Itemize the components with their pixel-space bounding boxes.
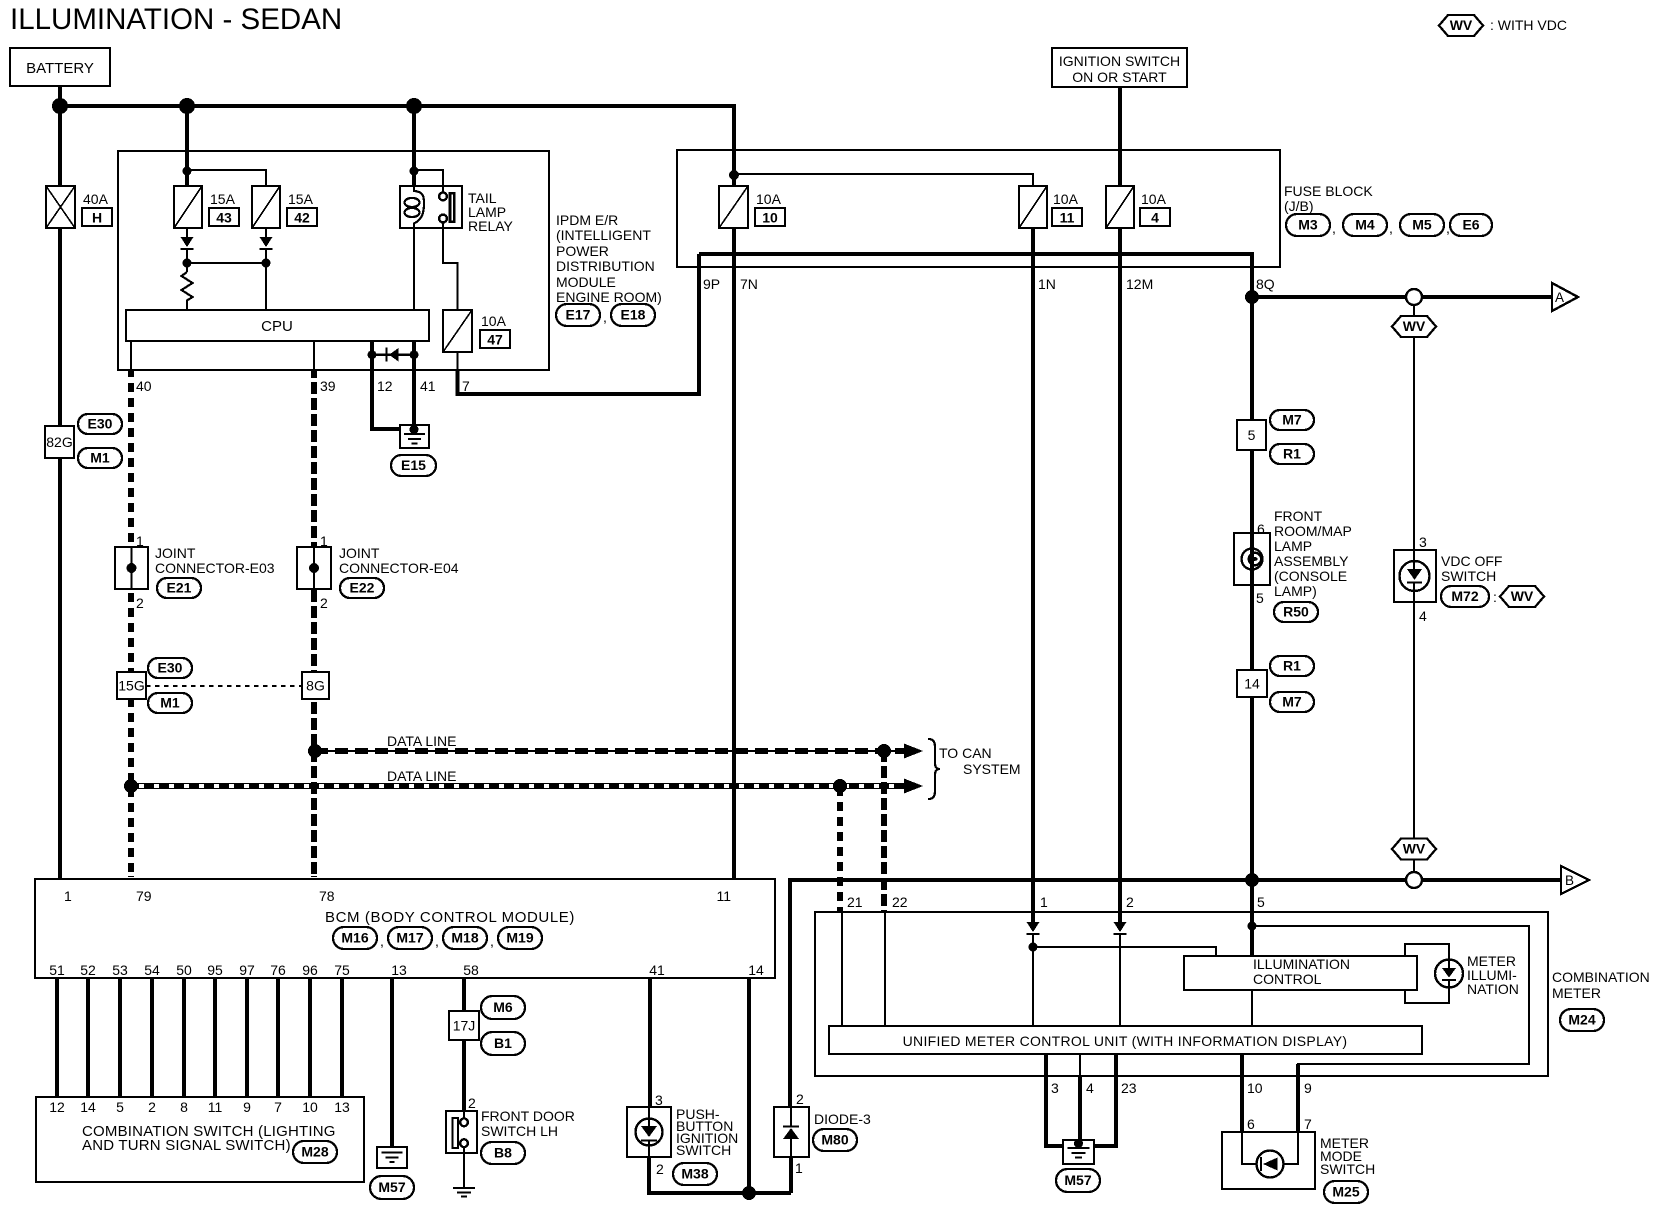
svg-text:10A: 10A	[756, 191, 782, 207]
svg-text:SWITCH LH: SWITCH LH	[481, 1123, 558, 1139]
svg-text:1: 1	[64, 888, 72, 904]
svg-text:,: ,	[603, 309, 607, 325]
svg-text:2: 2	[148, 1099, 156, 1115]
svg-text:11: 11	[1060, 210, 1075, 226]
svg-text:SWITCH: SWITCH	[1320, 1161, 1375, 1177]
svg-text:B8: B8	[494, 1145, 512, 1161]
svg-text:ENGINE ROOM): ENGINE ROOM)	[556, 289, 662, 305]
svg-text:WV: WV	[1511, 588, 1534, 604]
svg-text:NATION: NATION	[1467, 981, 1519, 997]
svg-text:2: 2	[468, 1095, 476, 1111]
svg-text:8Q: 8Q	[1256, 276, 1275, 292]
svg-text:E30: E30	[158, 660, 183, 676]
svg-text:E18: E18	[621, 307, 646, 323]
svg-text:M16: M16	[341, 930, 368, 946]
svg-text:WV: WV	[1403, 318, 1426, 334]
svg-text:CONNECTOR-E03: CONNECTOR-E03	[155, 560, 275, 576]
svg-text:M38: M38	[681, 1166, 708, 1182]
svg-text::: :	[1493, 589, 1497, 605]
svg-text:15A: 15A	[210, 191, 236, 207]
svg-text:5: 5	[1257, 894, 1265, 910]
svg-text:7: 7	[1304, 1116, 1312, 1132]
svg-text:2: 2	[796, 1091, 804, 1107]
svg-text:51: 51	[49, 962, 65, 978]
svg-text:FRONT: FRONT	[1274, 508, 1323, 524]
svg-text:IPDM E/R: IPDM E/R	[556, 212, 618, 228]
svg-text:DISTRIBUTION: DISTRIBUTION	[556, 258, 655, 274]
svg-text:E22: E22	[350, 580, 375, 596]
svg-text:12: 12	[377, 378, 393, 394]
svg-text:WV: WV	[1450, 17, 1473, 33]
svg-text:(J/B): (J/B)	[1284, 198, 1314, 214]
svg-text:MODULE: MODULE	[556, 274, 616, 290]
svg-text:78: 78	[319, 888, 335, 904]
svg-text:96: 96	[302, 962, 318, 978]
svg-text:2: 2	[656, 1161, 664, 1177]
svg-text:10: 10	[1247, 1080, 1263, 1096]
svg-text:1: 1	[320, 533, 328, 549]
svg-text:LAMP): LAMP)	[1274, 583, 1317, 599]
svg-text:41: 41	[649, 962, 665, 978]
svg-text:CPU: CPU	[261, 318, 293, 335]
svg-text:R50: R50	[1283, 604, 1309, 620]
svg-text:,: ,	[1389, 220, 1393, 236]
svg-text:58: 58	[463, 962, 479, 978]
svg-text:SYSTEM: SYSTEM	[963, 761, 1021, 777]
svg-text:ILLUMINATION: ILLUMINATION	[1253, 956, 1350, 972]
svg-text:10A: 10A	[1141, 191, 1167, 207]
svg-text:E6: E6	[1462, 217, 1479, 233]
svg-text:M5: M5	[1412, 217, 1432, 233]
svg-text:B: B	[1565, 873, 1574, 888]
svg-text:1: 1	[1040, 894, 1048, 910]
svg-text:97: 97	[239, 962, 255, 978]
svg-text:1N: 1N	[1038, 276, 1056, 292]
svg-text:ASSEMBLY: ASSEMBLY	[1274, 553, 1349, 569]
svg-text:9P: 9P	[703, 276, 720, 292]
svg-text:M19: M19	[506, 930, 533, 946]
svg-text:BATTERY: BATTERY	[26, 60, 94, 77]
svg-text:COMBINATION: COMBINATION	[1552, 969, 1650, 985]
svg-text:LAMP: LAMP	[1274, 538, 1312, 554]
svg-text:M80: M80	[821, 1132, 848, 1148]
svg-text:12: 12	[49, 1099, 65, 1115]
svg-text:14: 14	[1244, 676, 1260, 692]
svg-text:13: 13	[391, 962, 407, 978]
svg-text:A: A	[1555, 290, 1564, 305]
svg-text:4: 4	[1151, 210, 1159, 226]
svg-text:M17: M17	[396, 930, 423, 946]
svg-text:7: 7	[274, 1099, 282, 1115]
svg-text:FUSE BLOCK: FUSE BLOCK	[1284, 183, 1373, 199]
svg-text:76: 76	[270, 962, 286, 978]
svg-text:50: 50	[176, 962, 192, 978]
svg-text:VDC OFF: VDC OFF	[1441, 553, 1502, 569]
svg-text:5: 5	[1248, 427, 1256, 443]
svg-text:,: ,	[1446, 220, 1450, 236]
svg-text:43: 43	[216, 210, 232, 226]
svg-text:WV: WV	[1403, 841, 1426, 857]
svg-text:JOINT: JOINT	[155, 545, 196, 561]
svg-text:6: 6	[1257, 521, 1265, 537]
svg-text:M7: M7	[1282, 694, 1302, 710]
svg-text:11: 11	[208, 1099, 223, 1115]
svg-text:E15: E15	[401, 457, 426, 473]
svg-text:2: 2	[320, 595, 328, 611]
svg-text:(INTELLIGENT: (INTELLIGENT	[556, 227, 651, 243]
svg-text:SWITCH: SWITCH	[676, 1142, 731, 1158]
svg-text:9: 9	[243, 1099, 251, 1115]
svg-text:2: 2	[1126, 894, 1134, 910]
svg-text:10: 10	[302, 1099, 318, 1115]
svg-text:M57: M57	[378, 1179, 405, 1195]
svg-text:82G: 82G	[46, 434, 72, 450]
svg-text:JOINT: JOINT	[339, 545, 380, 561]
svg-text:10: 10	[762, 210, 778, 226]
svg-text:E17: E17	[566, 307, 591, 323]
svg-text:8G: 8G	[306, 678, 325, 694]
svg-text:1: 1	[795, 1160, 803, 1176]
svg-text:M57: M57	[1064, 1172, 1091, 1188]
svg-text:6: 6	[1247, 1116, 1255, 1132]
svg-text:FRONT DOOR: FRONT DOOR	[481, 1108, 575, 1124]
svg-text:15G: 15G	[118, 678, 144, 694]
svg-text:M72: M72	[1451, 588, 1478, 604]
svg-text:DATA LINE: DATA LINE	[387, 768, 457, 784]
svg-text:14: 14	[80, 1099, 96, 1115]
svg-text:7N: 7N	[740, 276, 758, 292]
svg-text:M1: M1	[90, 450, 110, 466]
svg-text:ILLUMINATION - SEDAN: ILLUMINATION - SEDAN	[10, 3, 342, 36]
svg-text:15A: 15A	[288, 191, 314, 207]
svg-text:3: 3	[1419, 534, 1427, 550]
svg-text:M1: M1	[160, 695, 180, 711]
svg-text:BCM (BODY CONTROL MODULE): BCM (BODY CONTROL MODULE)	[325, 909, 575, 926]
svg-text:ON OR START: ON OR START	[1072, 69, 1167, 85]
svg-text:39: 39	[320, 378, 336, 394]
svg-text:ROOM/MAP: ROOM/MAP	[1274, 523, 1352, 539]
svg-text:9: 9	[1304, 1080, 1312, 1096]
svg-text:CONNECTOR-E04: CONNECTOR-E04	[339, 560, 459, 576]
svg-text:TO CAN: TO CAN	[939, 745, 992, 761]
svg-text:AND TURN SIGNAL SWITCH): AND TURN SIGNAL SWITCH)	[82, 1137, 291, 1154]
svg-text:52: 52	[80, 962, 96, 978]
svg-text:B1: B1	[494, 1035, 512, 1051]
svg-text:41: 41	[420, 378, 436, 394]
svg-text:54: 54	[144, 962, 160, 978]
svg-text:79: 79	[136, 888, 152, 904]
svg-text:M18: M18	[451, 930, 478, 946]
svg-text:4: 4	[1419, 608, 1427, 624]
svg-text:13: 13	[334, 1099, 350, 1115]
svg-text:95: 95	[207, 962, 223, 978]
svg-text:,: ,	[1332, 220, 1336, 236]
svg-text:3: 3	[655, 1092, 663, 1108]
svg-text:DIODE-3: DIODE-3	[814, 1111, 871, 1127]
svg-text:POWER: POWER	[556, 243, 609, 259]
svg-text:5: 5	[1256, 590, 1264, 606]
svg-text:: WITH VDC: : WITH VDC	[1490, 17, 1567, 33]
svg-text:R1: R1	[1283, 658, 1301, 674]
svg-text:12M: 12M	[1126, 276, 1153, 292]
svg-text:,: ,	[490, 933, 494, 949]
svg-text:METER: METER	[1552, 985, 1601, 1001]
svg-text:21: 21	[847, 894, 863, 910]
svg-text:RELAY: RELAY	[468, 218, 514, 234]
svg-text:DATA LINE: DATA LINE	[387, 733, 457, 749]
svg-text:M24: M24	[1568, 1012, 1595, 1028]
svg-text:E30: E30	[88, 416, 113, 432]
svg-text:10A: 10A	[1053, 191, 1079, 207]
svg-text:,: ,	[380, 933, 384, 949]
svg-text:75: 75	[334, 962, 350, 978]
svg-text:(CONSOLE: (CONSOLE	[1274, 568, 1347, 584]
svg-text:3: 3	[1051, 1080, 1059, 1096]
svg-text:10A: 10A	[481, 313, 507, 329]
svg-text:M3: M3	[1298, 217, 1318, 233]
svg-text:14: 14	[748, 962, 764, 978]
svg-text:7: 7	[462, 378, 470, 394]
svg-text:E21: E21	[167, 580, 192, 596]
svg-text:17J: 17J	[453, 1018, 476, 1034]
svg-text:M7: M7	[1282, 412, 1302, 428]
svg-text:5: 5	[116, 1099, 124, 1115]
svg-text:53: 53	[112, 962, 128, 978]
svg-text:CONTROL: CONTROL	[1253, 971, 1322, 987]
svg-text:SWITCH: SWITCH	[1441, 568, 1496, 584]
svg-text:UNIFIED METER CONTROL UNIT (WI: UNIFIED METER CONTROL UNIT (WITH INFORMA…	[903, 1033, 1348, 1049]
svg-text:2: 2	[136, 595, 144, 611]
svg-text:47: 47	[487, 332, 503, 348]
svg-text:22: 22	[892, 894, 908, 910]
svg-text:M6: M6	[493, 999, 513, 1015]
svg-text:M25: M25	[1332, 1184, 1359, 1200]
svg-text:11: 11	[716, 888, 731, 904]
svg-text:M28: M28	[301, 1144, 328, 1160]
svg-text:40: 40	[136, 378, 152, 394]
svg-text:,: ,	[435, 933, 439, 949]
svg-text:1: 1	[136, 533, 144, 549]
svg-text:23: 23	[1121, 1080, 1137, 1096]
svg-text:8: 8	[180, 1099, 188, 1115]
svg-text:R1: R1	[1283, 446, 1301, 462]
svg-text:4: 4	[1086, 1080, 1094, 1096]
svg-text:42: 42	[294, 210, 310, 226]
svg-text:IGNITION SWITCH: IGNITION SWITCH	[1059, 53, 1180, 69]
svg-text:M4: M4	[1355, 217, 1375, 233]
svg-text:H: H	[92, 210, 102, 226]
svg-text:40A: 40A	[83, 191, 109, 207]
